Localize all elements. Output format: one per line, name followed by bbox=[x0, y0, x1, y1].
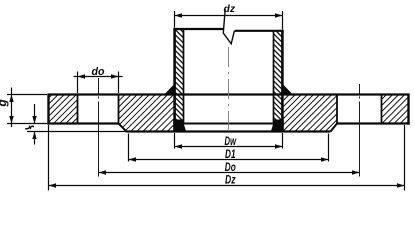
svg-text:do: do bbox=[92, 66, 105, 78]
dimension f: top arrow (outside, pointing down) bbox=[34, 104, 36, 124]
dimension Do: line bbox=[99, 172, 360, 174]
dimension do: right arrow bbox=[111, 74, 119, 78]
raised face bottom line bbox=[127, 130, 331, 132]
dimension g: line bbox=[11, 88, 13, 128]
flange section between left bolt hole and pipe: hatched polygon with raised-face chamfer bbox=[119, 95, 175, 132]
dimension do: left arrow bbox=[78, 74, 86, 78]
pipe top edge right of break bbox=[235, 30, 284, 32]
pipe end edge seen through bore bbox=[184, 123, 274, 125]
dimension dz: left arrow bbox=[175, 13, 183, 17]
flange left edge bbox=[47, 93, 49, 124]
dimension Dz: arrows bbox=[49, 183, 57, 187]
label f (rotated) bbox=[26, 126, 34, 129]
pipe top edge left of break bbox=[173, 28, 223, 30]
dimension Dz: extension lines bbox=[48, 125, 50, 191]
dimension g: extension lines bbox=[7, 94, 47, 96]
flange section between pipe and right bolt hole: hatched polygon with raised-face chamfer bbox=[283, 95, 337, 132]
dimension D1: extension lines bbox=[128, 134, 130, 162]
dimension Dw: arrows bbox=[175, 144, 183, 148]
left bolt hole right wall bbox=[118, 95, 120, 124]
flange top face line bbox=[49, 93, 409, 95]
weld fillet top-right (solid) bbox=[282, 84, 293, 95]
weld fillet top-left (solid) bbox=[164, 84, 175, 95]
centerline pipe axis bbox=[228, 47, 230, 131]
left bolt hole left wall bbox=[77, 95, 79, 124]
pipe inner wall left bbox=[183, 29, 185, 124]
right bolt hole right wall bbox=[381, 95, 383, 124]
flange right edge bbox=[407, 93, 409, 124]
dimension D1: arrows bbox=[129, 157, 137, 161]
right bolt hole left wall bbox=[336, 95, 338, 124]
dimension do: line bbox=[74, 76, 123, 78]
flange section right end: hatched block bbox=[382, 95, 409, 124]
pipe left wall: hatched bbox=[174, 29, 184, 123]
dimension do: extension lines bbox=[77, 72, 79, 94]
raised face chamfer left bbox=[119, 124, 127, 132]
centerline left bolt hole bbox=[98, 78, 100, 177]
raised face chamfer right bbox=[331, 124, 338, 132]
dimension g: bottom arrow bbox=[9, 116, 13, 124]
dimension dz: extension lines bbox=[174, 11, 176, 28]
weld fillet bottom-right inside bore (solid) bbox=[271, 120, 284, 132]
dimension f: bottom arrow (outside, pointing up) bbox=[34, 132, 36, 145]
dimension D1: line bbox=[129, 159, 329, 161]
dimension g: top arrow bbox=[9, 95, 13, 103]
pipe outer wall right bbox=[281, 31, 284, 124]
svg-text:D1: D1 bbox=[225, 147, 236, 161]
pipe outer wall left bbox=[173, 29, 176, 124]
dimension Dz: line bbox=[49, 185, 405, 187]
pipe inner wall right bbox=[273, 31, 275, 124]
dimension dz: right arrow bbox=[275, 13, 283, 17]
pipe right wall: hatched bbox=[274, 31, 284, 123]
centerline right bolt hole bbox=[359, 84, 361, 177]
dimension dz: line bbox=[175, 15, 283, 17]
svg-text:Dz: Dz bbox=[225, 173, 236, 187]
weld fillet bottom-left inside bore (solid) bbox=[173, 120, 186, 132]
svg-text:Dw: Dw bbox=[225, 134, 237, 148]
pipe break zigzag bbox=[223, 9, 234, 44]
dimension Dw: line bbox=[175, 146, 283, 148]
dimension Do: arrows bbox=[99, 170, 107, 174]
flange bottom face line left part (across bolt hole) bbox=[47, 122, 119, 124]
flange section left end: hatched block bbox=[49, 95, 78, 124]
dimension f: extension line lower bbox=[27, 131, 127, 133]
svg-text:g: g bbox=[0, 99, 9, 108]
flange bottom face line right part (across bolt hole) bbox=[337, 122, 410, 124]
svg-text:dz: dz bbox=[224, 3, 236, 15]
dimension Dw: extension lines bbox=[174, 133, 176, 149]
